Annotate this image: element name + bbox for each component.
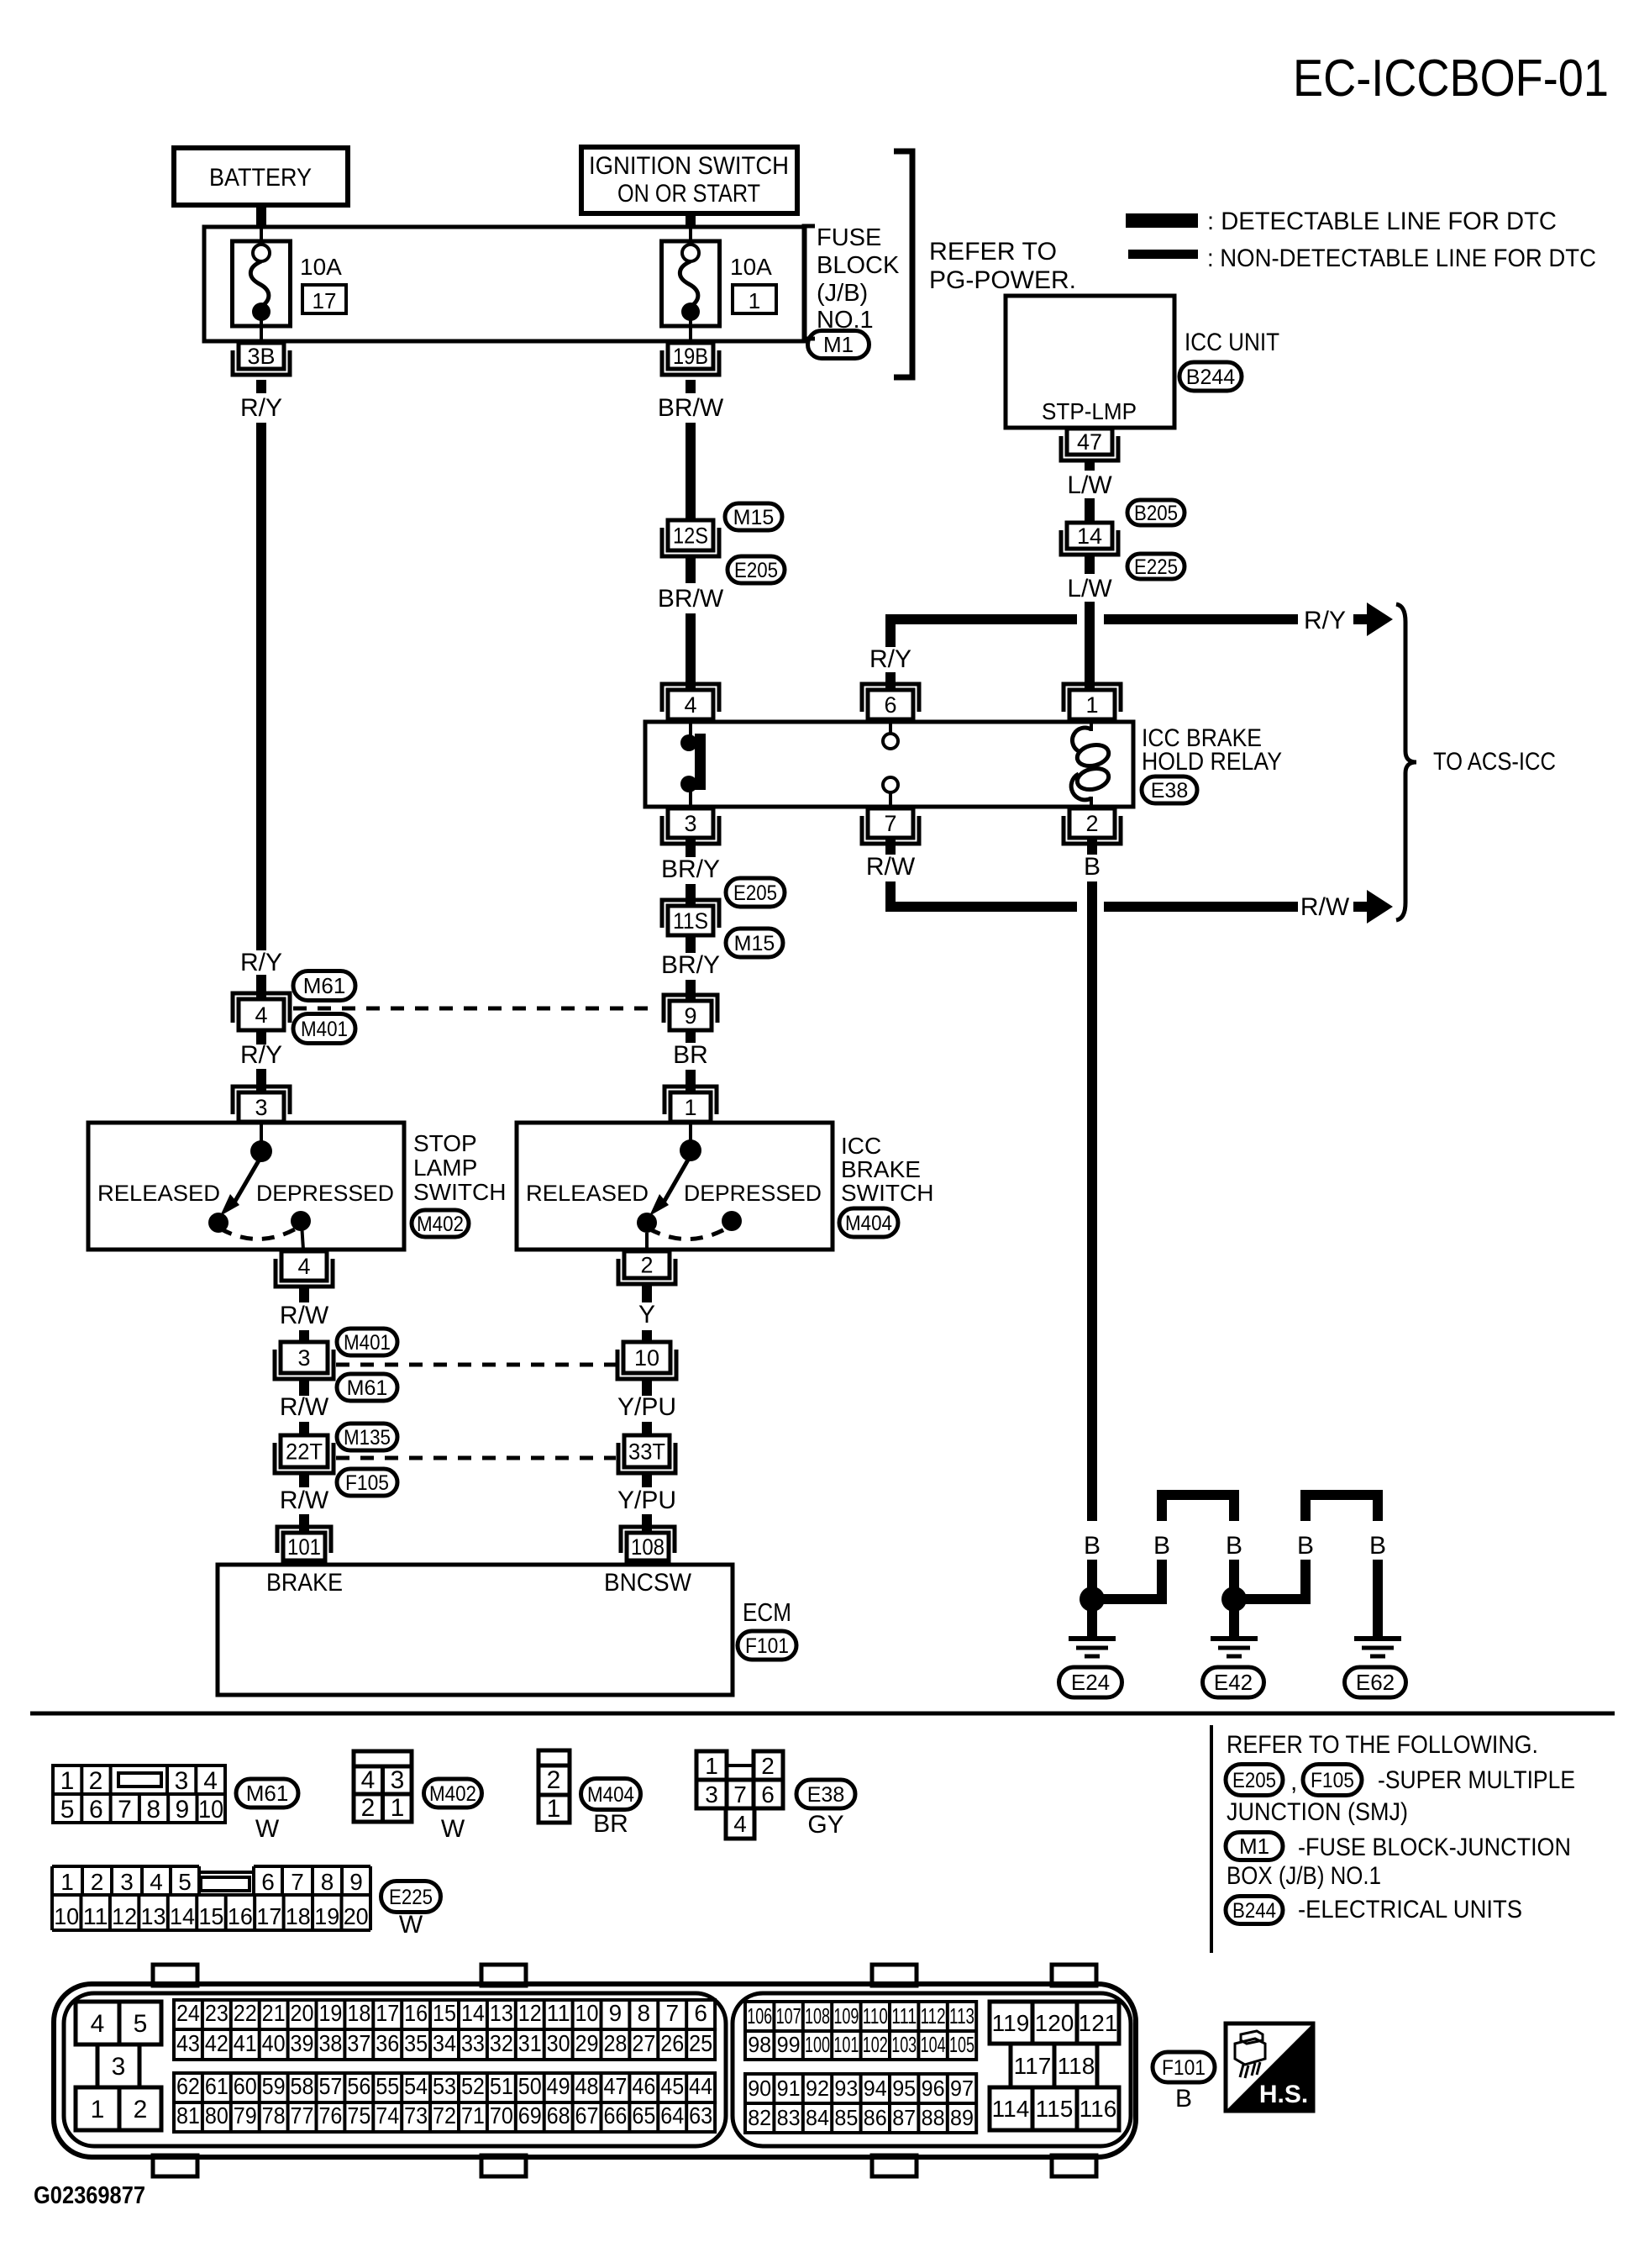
svg-text:69: 69	[518, 2102, 542, 2129]
svg-text:E42: E42	[1214, 1670, 1253, 1695]
svg-text:23: 23	[205, 2000, 229, 2026]
svg-text:STOP: STOP	[413, 1130, 477, 1156]
svg-text:8: 8	[321, 1869, 334, 1895]
svg-text:92: 92	[806, 2076, 829, 2101]
svg-text:Y/PU: Y/PU	[617, 1393, 676, 1421]
svg-text:R/Y: R/Y	[869, 645, 911, 673]
svg-text:72: 72	[433, 2102, 456, 2129]
svg-text:DEPRESSED: DEPRESSED	[684, 1181, 822, 1206]
svg-text:14: 14	[170, 1903, 195, 1929]
svg-text:36: 36	[376, 2030, 399, 2056]
svg-text:91: 91	[777, 2076, 801, 2101]
svg-text:B: B	[1084, 853, 1101, 881]
svg-text:4: 4	[91, 2010, 105, 2038]
svg-text:2: 2	[1085, 811, 1098, 836]
svg-text:F105: F105	[1311, 1769, 1354, 1792]
svg-text:16: 16	[404, 2000, 428, 2026]
svg-text:BR/Y: BR/Y	[661, 855, 720, 883]
svg-text:JUNCTION (SMJ): JUNCTION (SMJ)	[1227, 1798, 1408, 1826]
svg-text:M401: M401	[301, 1018, 348, 1041]
svg-text:81: 81	[176, 2102, 200, 2129]
svg-text:REFER TO THE FOLLOWING.: REFER TO THE FOLLOWING.	[1227, 1731, 1538, 1759]
svg-text:104: 104	[921, 2032, 946, 2057]
svg-text:M1: M1	[823, 332, 854, 357]
svg-text:82: 82	[748, 2105, 771, 2130]
svg-text:120: 120	[1035, 2010, 1074, 2036]
svg-text:BRAKE: BRAKE	[266, 1569, 343, 1597]
svg-text:10: 10	[54, 1903, 79, 1929]
svg-text:41: 41	[234, 2030, 257, 2056]
svg-text:28: 28	[603, 2030, 627, 2056]
svg-text:M61: M61	[303, 973, 346, 998]
svg-text:-FUSE BLOCK-JUNCTION: -FUSE BLOCK-JUNCTION	[1298, 1834, 1571, 1861]
svg-text:BLOCK: BLOCK	[817, 252, 900, 279]
svg-text:25: 25	[689, 2030, 712, 2056]
svg-text:19: 19	[318, 2000, 342, 2026]
svg-text:M404: M404	[845, 1212, 892, 1235]
svg-text:19: 19	[314, 1903, 339, 1929]
svg-text:95: 95	[892, 2076, 916, 2101]
svg-text:B: B	[1297, 1532, 1314, 1560]
svg-text:BNCSW: BNCSW	[604, 1569, 692, 1597]
svg-text:Y: Y	[638, 1301, 655, 1329]
svg-text:80: 80	[205, 2102, 229, 2129]
svg-text:L/W: L/W	[1067, 471, 1112, 499]
svg-text:G02369877: G02369877	[34, 2182, 145, 2209]
svg-text:7: 7	[665, 2000, 679, 2026]
svg-text:50: 50	[518, 2073, 542, 2099]
svg-text:M1: M1	[1239, 1834, 1269, 1859]
svg-text:6: 6	[694, 2000, 707, 2026]
svg-text:2: 2	[91, 1869, 104, 1895]
svg-text:3: 3	[175, 1767, 189, 1795]
svg-text:: DETECTABLE LINE FOR DTC: : DETECTABLE LINE FOR DTC	[1207, 208, 1557, 235]
svg-text:10A: 10A	[300, 254, 342, 280]
svg-text:40: 40	[262, 2030, 286, 2056]
svg-text:R/Y: R/Y	[240, 1041, 282, 1069]
svg-text:59: 59	[262, 2073, 286, 2099]
svg-text:20: 20	[291, 2000, 314, 2026]
svg-text:107: 107	[776, 2003, 801, 2029]
svg-text:68: 68	[547, 2102, 570, 2129]
svg-text:7: 7	[118, 1796, 132, 1823]
svg-text:GY: GY	[807, 1811, 843, 1839]
svg-text:4: 4	[150, 1869, 163, 1895]
svg-text:4: 4	[361, 1766, 376, 1794]
svg-text:10: 10	[575, 2000, 599, 2026]
svg-text:R/Y: R/Y	[1304, 607, 1346, 634]
svg-text:83: 83	[777, 2105, 801, 2130]
svg-text:109: 109	[833, 2003, 859, 2029]
svg-text:39: 39	[291, 2030, 314, 2056]
svg-text:94: 94	[864, 2076, 887, 2101]
svg-text:TO ACS-ICC: TO ACS-ICC	[1433, 748, 1556, 776]
svg-text:HOLD RELAY: HOLD RELAY	[1142, 748, 1282, 776]
svg-text:37: 37	[347, 2030, 370, 2056]
svg-text:B: B	[1084, 1532, 1101, 1560]
svg-text:11S: 11S	[673, 908, 708, 934]
svg-text:4: 4	[203, 1767, 218, 1795]
svg-text:RELEASED: RELEASED	[97, 1181, 220, 1206]
svg-text:EC-ICCBOF-01: EC-ICCBOF-01	[1293, 50, 1609, 108]
svg-text:B: B	[1369, 1532, 1386, 1560]
svg-text:5: 5	[178, 1869, 192, 1895]
svg-text:2: 2	[640, 1252, 653, 1277]
svg-text:18: 18	[347, 2000, 370, 2026]
svg-text:R/W: R/W	[866, 853, 916, 881]
svg-text:BOX (J/B) NO.1: BOX (J/B) NO.1	[1227, 1862, 1381, 1890]
svg-text:B244: B244	[1232, 1899, 1276, 1923]
svg-text:4: 4	[733, 1811, 747, 1837]
svg-text:119: 119	[992, 2010, 1030, 2036]
svg-text:79: 79	[234, 2102, 257, 2129]
svg-text:15: 15	[198, 1903, 223, 1929]
svg-text:7: 7	[291, 1869, 304, 1895]
svg-text:114: 114	[992, 2096, 1030, 2122]
svg-text:BR: BR	[673, 1041, 708, 1069]
svg-text:89: 89	[950, 2105, 974, 2130]
svg-text:: NON-DETECTABLE LINE FOR DTC: : NON-DETECTABLE LINE FOR DTC	[1207, 245, 1596, 272]
svg-text:ECM: ECM	[743, 1597, 791, 1627]
svg-text:DEPRESSED: DEPRESSED	[256, 1181, 394, 1206]
svg-text:22: 22	[234, 2000, 257, 2026]
svg-text:3: 3	[705, 1781, 718, 1808]
svg-text:49: 49	[547, 2073, 570, 2099]
svg-text:8: 8	[638, 2000, 651, 2026]
svg-text:48: 48	[575, 2073, 599, 2099]
svg-text:2: 2	[134, 2096, 148, 2123]
svg-text:9: 9	[684, 1003, 696, 1029]
svg-text:14: 14	[1077, 524, 1102, 549]
svg-text:99: 99	[777, 2032, 801, 2057]
svg-text:55: 55	[376, 2073, 399, 2099]
svg-text:53: 53	[433, 2073, 456, 2099]
svg-text:H.S.: H.S.	[1259, 2081, 1308, 2108]
svg-text:17: 17	[256, 1903, 281, 1929]
svg-text:16: 16	[228, 1903, 253, 1929]
svg-text:54: 54	[404, 2073, 428, 2099]
svg-text:110: 110	[863, 2003, 888, 2029]
svg-text:4: 4	[297, 1254, 310, 1279]
svg-text:BRAKE: BRAKE	[841, 1156, 921, 1182]
svg-text:E205: E205	[1232, 1769, 1276, 1792]
svg-text:BR/Y: BR/Y	[661, 951, 720, 979]
svg-text:R/W: R/W	[280, 1302, 329, 1329]
svg-text:12: 12	[112, 1903, 137, 1929]
svg-text:33T: 33T	[628, 1439, 665, 1464]
svg-text:97: 97	[950, 2076, 974, 2101]
svg-text:M404: M404	[587, 1783, 634, 1807]
svg-text:6: 6	[89, 1796, 103, 1823]
svg-text:3: 3	[684, 811, 696, 836]
svg-text:M402: M402	[429, 1782, 476, 1806]
svg-text:121: 121	[1079, 2010, 1118, 2036]
svg-text:58: 58	[291, 2073, 314, 2099]
svg-text:PG-POWER.: PG-POWER.	[929, 266, 1076, 294]
svg-text:ICC: ICC	[841, 1133, 881, 1159]
svg-text:13: 13	[490, 2000, 513, 2026]
svg-text:38: 38	[318, 2030, 342, 2056]
svg-text:8: 8	[146, 1796, 160, 1823]
svg-text:3: 3	[120, 1869, 134, 1895]
svg-text:84: 84	[806, 2105, 829, 2130]
svg-text:26: 26	[660, 2030, 684, 2056]
svg-text:W: W	[399, 1911, 423, 1939]
svg-text:4: 4	[684, 692, 696, 718]
svg-text:M401: M401	[344, 1331, 391, 1355]
svg-text:R/W: R/W	[1300, 893, 1350, 921]
svg-text:L/W: L/W	[1067, 575, 1112, 603]
svg-text:W: W	[441, 1815, 465, 1843]
svg-text:45: 45	[660, 2073, 684, 2099]
svg-text:32: 32	[490, 2030, 513, 2056]
svg-text:116: 116	[1080, 2096, 1117, 2122]
svg-text:117: 117	[1014, 2053, 1052, 2079]
svg-text:B: B	[1226, 1532, 1242, 1560]
svg-text:93: 93	[834, 2076, 858, 2101]
svg-text:M61: M61	[347, 1376, 388, 1400]
svg-text:17: 17	[313, 288, 337, 313]
svg-text:19B: 19B	[673, 344, 708, 369]
svg-text:W: W	[255, 1815, 280, 1843]
svg-text:10A: 10A	[730, 254, 772, 280]
svg-text:3: 3	[255, 1095, 267, 1120]
svg-text:R/Y: R/Y	[240, 394, 282, 422]
svg-text:M15: M15	[734, 932, 775, 955]
svg-text:E38: E38	[1151, 779, 1188, 802]
svg-text:88: 88	[922, 2105, 945, 2130]
svg-text:-SUPER MULTIPLE: -SUPER MULTIPLE	[1378, 1766, 1575, 1794]
svg-text:E38: E38	[807, 1783, 844, 1807]
svg-text:SWITCH: SWITCH	[413, 1179, 506, 1205]
svg-text:3: 3	[391, 1766, 405, 1794]
svg-text:7: 7	[884, 811, 896, 836]
svg-text:47: 47	[1077, 429, 1102, 455]
svg-text:E225: E225	[389, 1886, 433, 1909]
svg-text:1: 1	[1085, 692, 1098, 718]
svg-text:6: 6	[261, 1869, 275, 1895]
svg-text:1: 1	[391, 1794, 405, 1822]
svg-text:33: 33	[461, 2030, 485, 2056]
svg-text:52: 52	[461, 2073, 485, 2099]
svg-text:11: 11	[83, 1903, 108, 1929]
svg-text:64: 64	[660, 2102, 684, 2129]
svg-text:R/W: R/W	[280, 1393, 329, 1421]
svg-text:108: 108	[631, 1534, 665, 1560]
svg-text:F105: F105	[345, 1471, 389, 1495]
svg-text:14: 14	[461, 2000, 485, 2026]
svg-text:IGNITION SWITCH: IGNITION SWITCH	[589, 152, 789, 180]
svg-text:30: 30	[547, 2030, 570, 2056]
svg-text:2: 2	[547, 1766, 561, 1794]
svg-text:73: 73	[404, 2102, 428, 2129]
svg-text:B: B	[1153, 1532, 1170, 1560]
svg-text:M135: M135	[344, 1426, 391, 1450]
svg-text:74: 74	[376, 2102, 399, 2129]
svg-text:-ELECTRICAL UNITS: -ELECTRICAL UNITS	[1298, 1896, 1522, 1923]
svg-text:B: B	[1175, 2085, 1192, 2113]
svg-text:98: 98	[748, 2032, 771, 2057]
svg-text:SWITCH: SWITCH	[841, 1180, 933, 1206]
svg-text:ON OR START: ON OR START	[617, 180, 760, 208]
svg-text:70: 70	[490, 2102, 513, 2129]
svg-text:24: 24	[176, 2000, 200, 2026]
svg-text:2: 2	[761, 1753, 775, 1779]
svg-text:3: 3	[297, 1345, 310, 1371]
svg-text:9: 9	[349, 1869, 363, 1895]
svg-text:1: 1	[547, 1795, 561, 1823]
svg-text:M402: M402	[417, 1213, 464, 1236]
svg-text:1: 1	[60, 1767, 75, 1795]
svg-text:96: 96	[922, 2076, 945, 2101]
svg-text:85: 85	[834, 2105, 858, 2130]
svg-text:51: 51	[490, 2073, 513, 2099]
svg-text:2: 2	[89, 1767, 103, 1795]
svg-text:62: 62	[176, 2073, 200, 2099]
svg-text:4: 4	[255, 1002, 267, 1028]
svg-text:113: 113	[949, 2003, 974, 2029]
svg-text:15: 15	[433, 2000, 456, 2026]
svg-text:71: 71	[461, 2102, 485, 2129]
svg-text:47: 47	[603, 2073, 627, 2099]
svg-text:E62: E62	[1356, 1670, 1395, 1695]
svg-text:21: 21	[262, 2000, 286, 2026]
svg-text:112: 112	[921, 2003, 946, 2029]
svg-text:F101: F101	[745, 1634, 789, 1658]
svg-text:100: 100	[805, 2032, 830, 2057]
svg-text:M15: M15	[733, 506, 775, 529]
svg-text:7: 7	[733, 1781, 747, 1808]
svg-text:5: 5	[60, 1796, 75, 1823]
svg-text:86: 86	[864, 2105, 887, 2130]
svg-text:(J/B): (J/B)	[817, 280, 868, 307]
svg-text:10: 10	[634, 1345, 659, 1371]
svg-text:111: 111	[891, 2003, 917, 2029]
svg-text:1: 1	[91, 2096, 105, 2123]
svg-text:R/Y: R/Y	[240, 949, 282, 976]
svg-text:E225: E225	[1134, 555, 1178, 579]
svg-text:2: 2	[361, 1794, 376, 1822]
svg-text:75: 75	[347, 2102, 370, 2129]
svg-text:57: 57	[318, 2073, 342, 2099]
svg-text:1: 1	[684, 1095, 696, 1120]
svg-text:105: 105	[949, 2032, 974, 2057]
svg-text:11: 11	[547, 2000, 570, 2026]
svg-text:FUSE: FUSE	[817, 224, 881, 251]
svg-text:108: 108	[805, 2003, 830, 2029]
svg-text:BR/W: BR/W	[658, 585, 724, 613]
svg-text:13: 13	[141, 1903, 166, 1929]
svg-text:B244: B244	[1186, 366, 1235, 389]
svg-text:65: 65	[632, 2102, 655, 2129]
svg-text:1: 1	[705, 1753, 718, 1779]
svg-text:61: 61	[205, 2073, 229, 2099]
svg-text:34: 34	[433, 2030, 456, 2056]
svg-text:35: 35	[404, 2030, 428, 2056]
svg-text:27: 27	[632, 2030, 655, 2056]
svg-text:5: 5	[134, 2010, 148, 2038]
svg-text:22T: 22T	[286, 1439, 323, 1464]
svg-text:29: 29	[575, 2030, 599, 2056]
svg-text:F101: F101	[1162, 2056, 1206, 2080]
svg-text:77: 77	[291, 2102, 314, 2129]
svg-text:76: 76	[318, 2102, 342, 2129]
svg-text:115: 115	[1036, 2096, 1074, 2122]
svg-text:BR/W: BR/W	[658, 394, 724, 422]
svg-text:9: 9	[609, 2000, 623, 2026]
svg-text:17: 17	[376, 2000, 399, 2026]
svg-text:87: 87	[892, 2105, 916, 2130]
svg-text:101: 101	[287, 1534, 321, 1560]
svg-text:90: 90	[748, 2076, 771, 2101]
svg-text:44: 44	[689, 2073, 712, 2099]
svg-text:46: 46	[632, 2073, 655, 2099]
svg-text:1: 1	[60, 1869, 74, 1895]
svg-text:3B: 3B	[247, 344, 275, 369]
svg-text:6: 6	[884, 692, 896, 718]
svg-text:66: 66	[603, 2102, 627, 2129]
svg-text:E205: E205	[734, 559, 778, 582]
svg-text:12S: 12S	[673, 523, 708, 548]
svg-text:E24: E24	[1071, 1670, 1110, 1695]
svg-text:M61: M61	[246, 1781, 289, 1806]
svg-text:102: 102	[863, 2032, 888, 2057]
svg-text:E205: E205	[733, 881, 777, 905]
svg-text:10: 10	[198, 1796, 223, 1823]
svg-text:BATTERY: BATTERY	[209, 164, 312, 192]
svg-text:9: 9	[176, 1796, 190, 1823]
svg-text:18: 18	[286, 1903, 311, 1929]
svg-text:20: 20	[344, 1903, 369, 1929]
svg-text:106: 106	[747, 2003, 772, 2029]
svg-text:12: 12	[518, 2000, 542, 2026]
svg-text:,: ,	[1290, 1768, 1297, 1796]
svg-text:103: 103	[891, 2032, 917, 2057]
svg-text:63: 63	[689, 2102, 712, 2129]
svg-text:31: 31	[518, 2030, 542, 2056]
svg-text:42: 42	[205, 2030, 229, 2056]
svg-text:BR: BR	[593, 1810, 628, 1838]
svg-text:118: 118	[1058, 2053, 1095, 2079]
svg-text:101: 101	[833, 2032, 859, 2057]
svg-text:60: 60	[234, 2073, 257, 2099]
svg-text:STP-LMP: STP-LMP	[1042, 398, 1137, 424]
svg-text:43: 43	[176, 2030, 200, 2056]
svg-text:R/W: R/W	[280, 1487, 329, 1514]
svg-text:1: 1	[749, 288, 760, 313]
svg-text:78: 78	[262, 2102, 286, 2129]
svg-text:B205: B205	[1134, 502, 1178, 525]
svg-text:ICC UNIT: ICC UNIT	[1185, 329, 1279, 356]
svg-text:6: 6	[761, 1781, 775, 1808]
svg-text:REFER TO: REFER TO	[929, 238, 1057, 266]
svg-text:LAMP: LAMP	[413, 1155, 477, 1181]
svg-text:67: 67	[575, 2102, 599, 2129]
svg-text:RELEASED: RELEASED	[526, 1181, 649, 1206]
svg-text:3: 3	[112, 2053, 126, 2081]
svg-text:56: 56	[347, 2073, 370, 2099]
svg-text:Y/PU: Y/PU	[617, 1487, 676, 1514]
